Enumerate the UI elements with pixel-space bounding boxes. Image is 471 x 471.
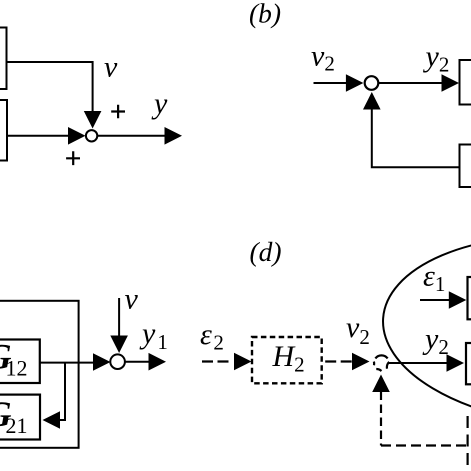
arrowhead into junction d	[352, 353, 370, 371]
block G21 (cut at image edge)	[0, 395, 40, 440]
dashed wire epsilon2 to H2	[202, 360, 233, 362]
block G12 (cut at image edge)	[0, 340, 40, 384]
dashed feedback wire down from junction d	[380, 392, 382, 446]
svg-text:(b): (b)	[249, 0, 281, 29]
block H2 dashed	[252, 337, 322, 383]
summing junction circle	[86, 130, 97, 141]
arrowhead into right block	[442, 74, 460, 92]
svg-text:v: v	[125, 283, 139, 316]
summing junction circle b	[365, 76, 379, 90]
arrowhead into junction b	[346, 74, 364, 92]
block partial right top (cut at image edge)	[460, 60, 471, 105]
arrowhead right into summing junction	[68, 127, 86, 145]
block y2 (cut at image edge)	[466, 343, 471, 384]
output wire y1	[125, 361, 150, 363]
svg-text:(d): (d)	[250, 236, 282, 267]
arrowhead up into junction b	[363, 92, 381, 110]
wire y2 output d	[389, 362, 449, 364]
svg-text:21: 21	[6, 413, 28, 438]
arrowhead up into junction d	[372, 375, 390, 393]
arrowhead output y	[165, 127, 183, 145]
wire from top block bending down to summing junction	[6, 62, 93, 112]
arrowhead into H2	[234, 353, 252, 371]
plus sign lower	[66, 151, 80, 165]
summing junction dashed circle d	[374, 355, 389, 371]
branch wire down to G21	[59, 363, 65, 420]
dashed feedback wire vertical right (cut at image edge)	[467, 416, 469, 471]
wire epsilon1 into block	[420, 299, 450, 301]
outer box (cut at image edge)	[0, 301, 79, 448]
wire G12 output to junction	[40, 362, 95, 364]
output wire y2	[379, 82, 446, 84]
feedback wire from lower block to junction	[372, 109, 460, 168]
arrowhead left into G21	[43, 411, 61, 429]
output wire y	[98, 135, 167, 137]
dashed wire H2 to junction d	[325, 360, 352, 362]
svg-text:y: y	[151, 87, 168, 120]
arrowhead down into junction c	[110, 336, 128, 354]
block partial top-left (cut at image edge)	[0, 28, 7, 90]
dashed feedback wire horizontal	[381, 444, 468, 446]
wire from second block to summing junction	[7, 135, 69, 137]
wire v down into junction c	[118, 298, 120, 337]
summing junction circle c	[110, 354, 125, 369]
input wire v2	[314, 82, 347, 84]
arrowhead into y2 block d	[447, 354, 465, 372]
svg-text:v: v	[104, 51, 118, 84]
ellipse boundary (cut at image edge)	[377, 224, 471, 438]
arrowhead down into summing junction	[84, 111, 102, 129]
arrowhead output y1	[149, 353, 167, 371]
block partial right lower (cut at image edge)	[460, 145, 471, 188]
arrowhead into junction c	[93, 353, 111, 371]
svg-text:12: 12	[6, 356, 28, 381]
block partial second (cut at image edge)	[0, 100, 7, 161]
arrowhead into epsilon1 block	[449, 291, 467, 309]
block epsilon1 (cut at image edge)	[468, 277, 471, 319]
plus sign upper	[111, 105, 125, 119]
